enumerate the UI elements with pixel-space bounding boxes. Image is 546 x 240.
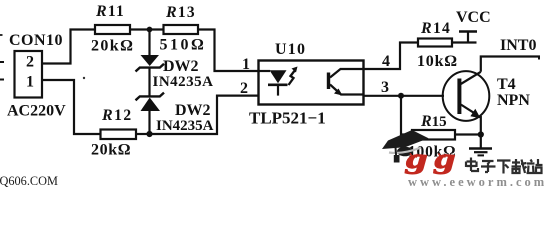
svg-text:DW2: DW2 xyxy=(175,102,211,119)
node A junction dot xyxy=(147,27,153,33)
phototransistor inside U10 xyxy=(329,69,364,96)
watermark Q606.COM xyxy=(0,174,58,188)
wire CON10 pin2 to top rail xyxy=(42,30,95,64)
svg-text:AC220V: AC220V xyxy=(7,103,66,120)
svg-text:R15: R15 xyxy=(420,113,447,130)
resistor R11 xyxy=(91,3,134,55)
wire opto pin4 to R14 xyxy=(364,43,419,70)
svg-text:g: g xyxy=(433,143,455,174)
svg-text:Q606.COM: Q606.COM xyxy=(0,174,58,188)
svg-text:TLP521−1: TLP521−1 xyxy=(249,109,326,128)
svg-text:U10: U10 xyxy=(275,41,306,58)
svg-text:1: 1 xyxy=(242,56,250,73)
wire R14 to VCC xyxy=(452,41,477,43)
svg-text:10kΩ: 10kΩ xyxy=(417,53,458,70)
node B junction dot xyxy=(146,131,152,137)
svg-text:510Ω: 510Ω xyxy=(160,37,207,54)
wire R15 to emitter node xyxy=(455,133,481,135)
svg-text:20kΩ: 20kΩ xyxy=(91,38,134,55)
svg-text:4: 4 xyxy=(382,53,390,70)
wire left-edge stub pin2 xyxy=(0,61,4,63)
svg-text:www.eeworm.com: www.eeworm.com xyxy=(408,175,546,188)
watermark graduation cap logo xyxy=(382,130,429,163)
resistor R13 xyxy=(160,4,207,54)
svg-text:CON10: CON10 xyxy=(9,32,63,49)
resistor R15 xyxy=(408,113,456,161)
svg-text:NPN: NPN xyxy=(497,92,530,109)
svg-text:3: 3 xyxy=(381,79,389,96)
pin 2 label xyxy=(240,80,248,97)
svg-text:R14: R14 xyxy=(420,20,451,37)
watermark www.eeworm.com xyxy=(408,175,546,189)
svg-text:1: 1 xyxy=(26,74,34,91)
zener diode DW2 top xyxy=(136,55,214,90)
pin 1 label xyxy=(242,56,250,73)
wire R13 to opto pin1 xyxy=(198,30,259,72)
wire zener bottom to node B xyxy=(148,111,150,134)
svg-text:DW2: DW2 xyxy=(163,58,199,75)
wire left-edge stub pin1 xyxy=(0,79,4,81)
watermark red bug characters xyxy=(405,143,456,175)
svg-text:T4: T4 xyxy=(497,76,516,93)
resistor R14 xyxy=(417,20,458,70)
svg-text:20kΩ: 20kΩ xyxy=(91,142,131,159)
svg-text:R13: R13 xyxy=(165,4,196,21)
wire node B to opto pin2 xyxy=(150,96,259,134)
ground xyxy=(469,149,492,156)
scan noise dot xyxy=(83,77,85,79)
svg-text:R12: R12 xyxy=(101,107,133,124)
pin 3 label xyxy=(381,79,389,96)
VCC power symbol xyxy=(456,9,491,43)
wire node C down to R15 xyxy=(401,96,412,135)
INT0 net label xyxy=(500,37,536,54)
scan mark top-left edge xyxy=(0,34,3,36)
light arrow xyxy=(289,67,298,86)
svg-text:IN4235A: IN4235A xyxy=(156,118,214,134)
watermark chinese site name xyxy=(466,158,543,174)
svg-text:VCC: VCC xyxy=(456,9,491,26)
zener diode DW2 bottom xyxy=(136,93,214,134)
connector CON10 xyxy=(7,32,66,120)
resistor R12 xyxy=(91,107,136,159)
LED inside U10 xyxy=(259,70,288,95)
bug antennae xyxy=(410,154,446,158)
svg-text:INT0: INT0 xyxy=(500,37,536,54)
transistor T4 xyxy=(443,71,531,121)
optocoupler U10 xyxy=(249,41,364,128)
wire node A down to zener DW2a xyxy=(148,30,150,56)
wire between zeners xyxy=(148,68,150,97)
pin 4 label xyxy=(382,53,390,70)
wire opto pin3 to T4 base xyxy=(364,95,445,97)
svg-text:R11: R11 xyxy=(95,3,125,20)
wire R12 to node B xyxy=(136,133,150,135)
svg-text:IN4235A: IN4235A xyxy=(153,74,214,90)
svg-text:2: 2 xyxy=(26,54,34,71)
node C junction dot xyxy=(398,93,404,99)
svg-text:2: 2 xyxy=(240,80,248,97)
wire CON10 pin1 to bottom rail xyxy=(42,80,101,134)
wire R11 to R13 xyxy=(130,28,164,30)
node D junction dot xyxy=(478,131,484,137)
wire T4 collector to INT0 xyxy=(481,57,540,72)
svg-text:g: g xyxy=(405,143,428,174)
wire T4 emitter to ground xyxy=(480,116,482,149)
